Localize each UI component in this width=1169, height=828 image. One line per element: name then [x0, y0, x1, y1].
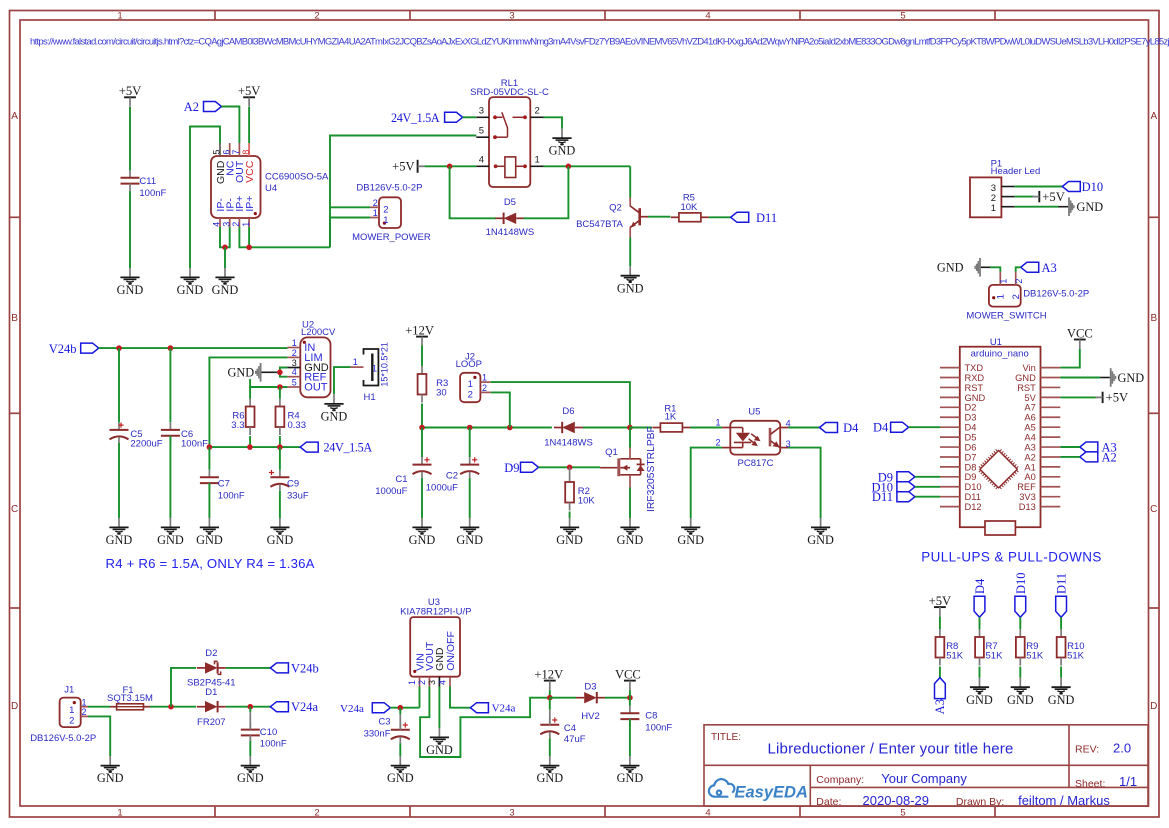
wire	[249, 436, 251, 447]
svg-text:D4: D4	[843, 421, 859, 435]
svg-text:PC817C: PC817C	[738, 458, 774, 469]
junction	[507, 425, 513, 431]
svg-text:MOWER_POWER: MOWER_POWER	[352, 232, 431, 243]
wire	[239, 227, 330, 247]
svg-text:10K: 10K	[578, 496, 596, 507]
U4 bottom pins 4-1	[219, 218, 221, 227]
net label D11 shape (U1)	[897, 492, 915, 502]
svg-text:51K: 51K	[986, 651, 1004, 662]
net label 24V_1.5A shape (left)	[300, 442, 318, 452]
svg-text:D3: D3	[584, 682, 596, 693]
svg-text:30: 30	[436, 388, 447, 399]
svg-text:2: 2	[383, 204, 388, 215]
wire	[421, 428, 423, 458]
svg-text:3V3: 3V3	[1019, 492, 1036, 502]
junction	[467, 425, 473, 431]
svg-text:C4: C4	[564, 723, 576, 734]
svg-text:Your Company: Your Company	[881, 771, 967, 786]
U2 pins	[287, 347, 300, 349]
svg-text:1000uF: 1000uF	[375, 486, 407, 497]
svg-text:FR207: FR207	[197, 717, 226, 728]
svg-text:A3: A3	[1042, 261, 1057, 275]
svg-text:BC547BTA: BC547BTA	[576, 219, 623, 230]
svg-text:1/1: 1/1	[1119, 774, 1137, 789]
svg-text:2: 2	[1014, 279, 1024, 284]
svg-text:PULL-UPS & PULL-DOWNS: PULL-UPS & PULL-DOWNS	[921, 550, 1102, 565]
U1 left pins	[940, 367, 960, 369]
wire	[209, 357, 287, 447]
wire	[1060, 456, 1080, 458]
svg-text:5V: 5V	[1024, 393, 1036, 403]
svg-text:1: 1	[241, 222, 251, 227]
svg-text:B: B	[11, 313, 18, 324]
junction	[247, 444, 253, 450]
wire	[330, 218, 370, 248]
resistor R4	[279, 399, 281, 407]
net label A3 shape (U1)	[1080, 442, 1098, 452]
net label V24a shape (U3 input)	[372, 703, 390, 713]
svg-text:+5V: +5V	[238, 84, 261, 98]
U5 pins	[722, 427, 730, 429]
svg-text:V24b: V24b	[49, 342, 77, 356]
svg-text:2200uF: 2200uF	[130, 439, 162, 450]
wire	[915, 496, 940, 498]
net label D9 shape (U1)	[897, 472, 915, 482]
wire	[690, 427, 722, 429]
svg-text:B: B	[1150, 313, 1157, 324]
svg-text:D5: D5	[965, 433, 977, 443]
net label D10 shape	[1062, 182, 1080, 192]
U3 pins	[419, 677, 421, 687]
optocoupler U5 PC817C body	[730, 421, 780, 455]
svg-text:1: 1	[69, 705, 74, 716]
svg-text:100nF: 100nF	[218, 491, 245, 502]
wire	[915, 486, 940, 488]
wire	[709, 216, 731, 218]
svg-text:2020-08-29: 2020-08-29	[863, 793, 930, 808]
wire	[277, 368, 288, 373]
diode D6 1N4148WS	[554, 427, 562, 429]
svg-text:GND: GND	[1015, 373, 1036, 383]
svg-text:A: A	[1150, 111, 1157, 122]
resistor R6	[249, 399, 251, 407]
svg-text:2: 2	[715, 438, 720, 448]
diode D2 SB2P45-41	[197, 667, 205, 669]
capacitor C9	[279, 470, 281, 478]
svg-text:C8: C8	[645, 711, 657, 722]
svg-text:VCC: VCC	[615, 667, 641, 681]
svg-text:D10: D10	[1014, 572, 1028, 594]
connector J2 LOOP body	[460, 373, 480, 402]
connector MOWER_SWITCH DB126V-5.0-2P body	[989, 285, 1021, 307]
wire J2 pin2 loop	[491, 392, 510, 427]
svg-text:5: 5	[900, 11, 905, 22]
wire	[1019, 667, 1021, 678]
svg-text:U1: U1	[990, 337, 1002, 348]
net label D4 shape (pull-down)	[974, 596, 985, 617]
svg-text:C7: C7	[218, 479, 230, 490]
svg-text:HV2: HV2	[581, 711, 599, 722]
wire	[539, 466, 601, 468]
junction	[566, 164, 572, 170]
svg-text:GND: GND	[117, 283, 144, 297]
svg-text:D9: D9	[965, 472, 977, 482]
svg-text:GND: GND	[549, 144, 576, 158]
net label 24V_1.5A shape	[445, 112, 463, 122]
net label V24b shape (D2)	[270, 663, 288, 673]
junction	[168, 345, 174, 351]
wire	[208, 483, 210, 518]
svg-text:+5V: +5V	[1106, 391, 1129, 405]
capacitor C4	[549, 717, 551, 725]
svg-text:DB126V-5.0-2P: DB126V-5.0-2P	[356, 183, 422, 194]
wire V24b rail	[99, 347, 288, 349]
svg-text:GND: GND	[456, 533, 483, 547]
relay switch contact	[495, 112, 524, 137]
svg-text:2: 2	[535, 106, 540, 117]
U5 internal LED	[730, 428, 751, 448]
svg-text:A6: A6	[1024, 413, 1035, 423]
svg-text:D: D	[1150, 701, 1157, 712]
junction	[627, 695, 633, 701]
svg-text:51K: 51K	[1067, 651, 1085, 662]
ground (U4 IP-)	[215, 268, 234, 285]
wire	[190, 127, 220, 269]
net label V24b shape	[81, 343, 99, 353]
IC U4 CC6900SO-5A body	[211, 156, 261, 218]
svg-text:3.3: 3.3	[231, 420, 244, 431]
ground (C1)	[412, 518, 431, 535]
resistor R3	[421, 366, 423, 374]
wire	[249, 707, 251, 713]
svg-text:2: 2	[373, 198, 378, 208]
ground (C2)	[460, 518, 479, 535]
svg-text:GND: GND	[677, 533, 704, 547]
junction	[207, 444, 213, 450]
svg-text:4: 4	[479, 155, 484, 166]
svg-text:33uF: 33uF	[287, 491, 309, 502]
net label A3 shape (pull-up)	[935, 678, 946, 699]
svg-text:Company:: Company:	[816, 774, 864, 786]
wire	[438, 687, 440, 729]
connector H1	[364, 349, 379, 386]
svg-text:1: 1	[82, 697, 87, 707]
ground (C10)	[241, 756, 260, 773]
wire	[1016, 267, 1021, 271]
ground (C11)	[120, 268, 139, 285]
svg-text:GND: GND	[536, 771, 563, 785]
connector P1 Header Led body	[970, 177, 1001, 217]
wire (mower power to relay pin5)	[330, 136, 476, 248]
svg-text:GND: GND	[1118, 371, 1145, 385]
capacitor C10	[249, 722, 251, 730]
wire	[279, 447, 281, 470]
wire	[222, 107, 240, 144]
wire	[1060, 667, 1062, 678]
svg-text:A2: A2	[1024, 452, 1035, 462]
resistor R2	[569, 474, 571, 482]
resistor R1	[652, 427, 660, 429]
svg-text:4: 4	[212, 222, 222, 227]
IC U1 arduino_nano body	[960, 347, 1041, 528]
transistor Q1 IRF3205STRLPBF	[600, 467, 617, 469]
svg-text:2: 2	[69, 716, 74, 727]
svg-text:1: 1	[996, 294, 1007, 299]
wire	[691, 448, 722, 518]
svg-text:1: 1	[117, 11, 122, 22]
svg-text:1: 1	[372, 363, 377, 373]
wire	[979, 617, 981, 629]
diode D2 schottky cathode hooks	[215, 661, 221, 674]
wire	[569, 512, 571, 519]
ground (R2)	[560, 518, 579, 535]
svg-text:GND: GND	[1048, 693, 1075, 707]
ground (J1)	[101, 756, 120, 773]
ground (Q2 emitter)	[621, 266, 640, 283]
svg-text:1: 1	[373, 208, 378, 218]
junction	[419, 425, 425, 431]
svg-text:5: 5	[900, 807, 905, 818]
svg-text:C2: C2	[446, 471, 458, 482]
wire	[1060, 349, 1080, 368]
svg-text:3: 3	[479, 106, 484, 117]
wire	[629, 428, 631, 448]
junction	[168, 704, 174, 710]
svg-text:+5V: +5V	[929, 594, 952, 608]
diode D5 1N4148WS	[495, 217, 503, 219]
svg-text:2: 2	[314, 807, 319, 818]
P1 pins	[1001, 186, 1014, 188]
wire	[629, 690, 631, 698]
svg-text:1: 1	[353, 357, 358, 367]
svg-text:5: 5	[479, 125, 484, 136]
junction	[277, 444, 283, 450]
wire	[544, 117, 563, 128]
wire	[399, 743, 401, 756]
svg-text:24V_1.5A: 24V_1.5A	[391, 111, 440, 125]
ground (U3)	[430, 728, 449, 745]
wire	[279, 436, 281, 447]
ground (C9)	[270, 518, 289, 535]
wire	[279, 491, 281, 518]
svg-text:GND: GND	[937, 261, 964, 275]
svg-text:GND: GND	[1077, 200, 1104, 214]
svg-text:C1: C1	[395, 474, 407, 485]
svg-text:GND: GND	[267, 533, 294, 547]
wire	[629, 488, 631, 519]
diode D1 FR207	[197, 706, 205, 708]
wire	[421, 346, 423, 367]
svg-text:IP+: IP+	[244, 196, 256, 212]
wire	[629, 698, 631, 706]
svg-text:1: 1	[482, 373, 487, 383]
wire	[118, 443, 120, 518]
resistor R5	[671, 216, 679, 218]
svg-text:RST: RST	[965, 383, 984, 393]
junction	[447, 164, 453, 170]
wire	[419, 687, 421, 708]
wire	[169, 436, 171, 518]
title block	[704, 725, 1148, 806]
wire	[605, 697, 630, 699]
U5 phototransistor	[769, 428, 772, 447]
ground (U5 pin2)	[681, 518, 700, 535]
svg-text:A4: A4	[1024, 433, 1035, 443]
svg-text:1: 1	[535, 155, 540, 166]
svg-text:Header Led: Header Led	[991, 166, 1041, 177]
wire	[171, 668, 196, 707]
svg-text:U5: U5	[748, 407, 760, 418]
capacitor C6	[169, 422, 171, 430]
wire	[979, 667, 981, 678]
svg-text:A3: A3	[933, 699, 947, 714]
wire	[248, 107, 250, 143]
wire	[249, 387, 251, 399]
capacitor C7	[208, 470, 210, 478]
ground (C7)	[200, 518, 219, 535]
svg-text:2: 2	[1011, 294, 1022, 299]
ground (C4)	[540, 756, 559, 773]
U5 light arrows	[749, 434, 761, 446]
svg-text:D13: D13	[1019, 502, 1036, 512]
svg-text:SB2P45-41: SB2P45-41	[187, 678, 236, 689]
svg-text:VCC: VCC	[1067, 326, 1093, 340]
IC U3 KIA78R12PI-U/P body	[410, 617, 460, 677]
svg-text:1: 1	[999, 279, 1009, 284]
svg-text:D6: D6	[562, 406, 574, 417]
svg-text:V24b: V24b	[291, 661, 319, 675]
svg-text:C: C	[11, 504, 18, 515]
svg-text:D10: D10	[1082, 180, 1104, 194]
svg-text:4: 4	[705, 11, 710, 22]
wire	[425, 165, 477, 167]
wire	[788, 427, 819, 429]
fuse F1 SQT3.15M	[110, 706, 117, 708]
svg-text:GND: GND	[617, 281, 644, 295]
svg-text:GND: GND	[965, 393, 986, 403]
wire	[249, 741, 251, 756]
wire	[450, 687, 470, 708]
ground (R9)	[1011, 678, 1030, 695]
junction	[246, 245, 252, 251]
svg-text:47uF: 47uF	[564, 734, 586, 745]
MOWER_POWER pins	[370, 206, 379, 208]
diode D3 HV2	[576, 697, 584, 699]
svg-text:C10: C10	[260, 727, 277, 738]
ground (U5 pin3)	[811, 518, 830, 535]
svg-text:GND: GND	[177, 283, 204, 297]
svg-text:4: 4	[438, 680, 448, 685]
svg-text:GND: GND	[212, 283, 239, 297]
U4 top pins 5-8	[219, 143, 221, 156]
svg-text:D11: D11	[756, 211, 777, 225]
svg-text:+5V: +5V	[119, 84, 142, 98]
wire	[1060, 617, 1062, 629]
svg-text:2: 2	[468, 390, 473, 401]
svg-text:1: 1	[407, 680, 417, 685]
wire	[248, 227, 250, 247]
net label A2 shape (U1)	[1080, 452, 1098, 462]
svg-text:Date:: Date:	[816, 796, 841, 808]
wire	[939, 617, 941, 629]
net label D10 shape (U1)	[897, 482, 915, 492]
wire	[1019, 617, 1021, 629]
resistor R10	[1060, 629, 1062, 637]
wire VOUT route	[420, 687, 550, 758]
resistor R8	[939, 629, 941, 637]
svg-text:GND: GND	[97, 771, 124, 785]
svg-text:https://www.falstad.com/circui: https://www.falstad.com/circuit/circuitj…	[30, 36, 1169, 47]
capacitor C1	[421, 457, 423, 465]
svg-text:1: 1	[117, 807, 122, 818]
J2 pins	[480, 381, 490, 383]
wire	[224, 247, 226, 268]
svg-text:D: D	[11, 701, 18, 712]
wire	[129, 191, 131, 268]
svg-text:+12V: +12V	[534, 667, 563, 681]
U1 usb connector icon	[985, 521, 1015, 535]
wire	[220, 227, 230, 247]
connector J1 DB126V-5.0-2P body	[60, 698, 81, 728]
wire	[1015, 206, 1059, 208]
svg-text:15*10.5*21: 15*10.5*21	[380, 342, 390, 387]
wire	[629, 166, 631, 197]
svg-text:8: 8	[241, 150, 251, 155]
svg-text:TXD: TXD	[965, 363, 984, 373]
svg-text:GND: GND	[228, 366, 255, 380]
net label D9 shape	[521, 462, 539, 472]
net label A3 shape	[1021, 262, 1039, 272]
svg-text:D11: D11	[965, 492, 981, 502]
relay pins	[476, 116, 489, 118]
wire	[463, 116, 477, 118]
svg-text:LOOP: LOOP	[456, 359, 482, 370]
svg-text:24V_1.5A: 24V_1.5A	[324, 441, 373, 455]
wire	[279, 387, 281, 399]
svg-text:D6: D6	[965, 442, 977, 452]
svg-text:2: 2	[314, 11, 319, 22]
J1 pins	[81, 706, 88, 708]
wire	[1060, 377, 1100, 379]
wire	[915, 476, 940, 478]
svg-text:SQT3.15M: SQT3.15M	[107, 693, 153, 704]
svg-text:5: 5	[292, 378, 297, 388]
connector MOWER_POWER DB126V-5.0-2P body	[379, 197, 401, 228]
wire	[630, 427, 652, 429]
svg-text:GND: GND	[617, 533, 644, 547]
svg-text:3: 3	[509, 807, 514, 818]
wire	[1015, 186, 1063, 188]
svg-text:1: 1	[383, 215, 388, 226]
junction	[567, 465, 573, 471]
svg-text:GND: GND	[321, 410, 348, 424]
svg-text:TITLE:: TITLE:	[711, 732, 741, 743]
junction	[248, 704, 254, 710]
svg-text:REV:: REV:	[1075, 744, 1099, 756]
wire	[544, 165, 631, 167]
wire	[88, 716, 110, 756]
capacitor C11	[129, 170, 131, 178]
svg-text:100nF: 100nF	[181, 439, 208, 450]
svg-text:1K: 1K	[665, 411, 677, 422]
svg-text:6: 6	[221, 150, 231, 155]
svg-text:D7: D7	[965, 452, 977, 462]
svg-text:MOWER_SWITCH: MOWER_SWITCH	[966, 310, 1046, 321]
svg-text:A1: A1	[1024, 462, 1035, 472]
svg-text:ON/OFF: ON/OFF	[445, 631, 457, 671]
MOWER_SWITCH pins	[999, 272, 1001, 285]
svg-text:2: 2	[231, 222, 241, 227]
